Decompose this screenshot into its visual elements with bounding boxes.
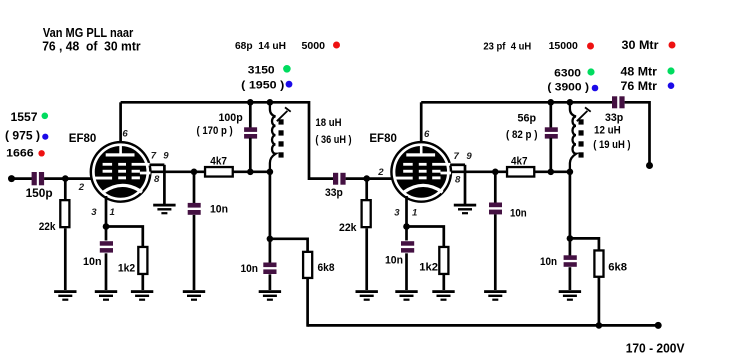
core dashes L2 [579, 119, 584, 157]
wire pin9 V2 down to ground [464, 165, 467, 204]
node tank1 cap bottom [247, 169, 254, 176]
ground (pin 9 V1) [153, 204, 175, 215]
svg-text:9: 9 [466, 151, 472, 162]
svg-text:56p: 56p [518, 113, 537, 125]
svg-text:( 82 p ): ( 82 p ) [506, 129, 538, 141]
wire 10n to ground [494, 214, 497, 290]
B+ terminal [655, 322, 662, 329]
wire cathode V2 down [405, 196, 408, 227]
svg-text:170 - 200V: 170 - 200V [626, 342, 685, 356]
svg-text:33p: 33p [325, 187, 343, 199]
capacitor 10n (cathode2) [401, 241, 414, 252]
svg-text:3: 3 [394, 208, 400, 219]
green dot marker (1557) [42, 113, 49, 120]
node tank2 coil bottom [567, 169, 574, 176]
svg-text:( 36 uH ): ( 36 uH ) [315, 134, 351, 146]
svg-text:150p: 150p [26, 187, 53, 200]
node decouple2 [567, 235, 574, 242]
node tank1 coil bottom [267, 169, 274, 176]
svg-text:76 , 48 of 30 mtr: 76 , 48 of 30 mtr [42, 39, 140, 54]
svg-text:68p 14 uH: 68p 14 uH [235, 41, 286, 52]
node screen1 [191, 169, 198, 176]
svg-text:100p: 100p [219, 112, 243, 124]
svg-text:7: 7 [151, 151, 157, 162]
svg-text:10n: 10n [210, 204, 228, 216]
wire 22k to ground [365, 228, 368, 290]
svg-text:6: 6 [424, 129, 430, 140]
wire cathode1 to 10n [105, 227, 108, 241]
wire node down to 10n [269, 239, 272, 263]
capacitor 10n (screen1 decoupling) [188, 203, 201, 215]
svg-text:Van MG PLL naar: Van MG PLL naar [43, 25, 133, 40]
input terminal [8, 175, 15, 182]
svg-text:12 uH: 12 uH [594, 125, 621, 137]
svg-text:3: 3 [91, 207, 97, 218]
ground (cathode2 10n) [395, 290, 417, 301]
svg-text:1k2: 1k2 [419, 262, 438, 274]
wire cathode V1 down [105, 196, 108, 227]
wire cathode2 to 10n [405, 227, 408, 241]
wire 1k2 to ground [442, 275, 445, 291]
wire pin7 V1 [150, 163, 165, 166]
resistor R1 22k [60, 200, 69, 227]
node rail2 cap top [548, 99, 555, 106]
svg-text:EF80: EF80 [69, 133, 97, 145]
wire 10n cathode1 to ground [105, 253, 108, 290]
wire tank2 bottom down [569, 172, 572, 239]
tube V2 EF80 [390, 141, 452, 203]
wire grid2 down to 22k [365, 179, 368, 200]
svg-text:5000: 5000 [302, 41, 326, 52]
wire 10n cathode2 to ground [405, 253, 408, 290]
resistor R2 4k7 [205, 167, 233, 177]
svg-text:8: 8 [154, 174, 160, 185]
capacitor C1 150p [32, 172, 45, 185]
capacitor 10n (tank1 bottom) [263, 263, 276, 275]
svg-text:4k7: 4k7 [210, 156, 227, 168]
svg-text:22k: 22k [339, 222, 357, 234]
svg-text:7: 7 [454, 151, 460, 162]
wire 4k7 to tank2 bottom [535, 170, 571, 173]
svg-text:EF80: EF80 [369, 133, 397, 145]
svg-text:15000: 15000 [549, 41, 579, 52]
tuning arrow L2 [577, 107, 591, 121]
wire 10n to ground [269, 274, 272, 290]
blue dot marker (1950) [286, 81, 293, 88]
red dot marker (1666) [38, 150, 44, 156]
wire 33p out to output terminal [625, 102, 650, 165]
svg-text:18 uH: 18 uH [315, 117, 341, 129]
wire plate V2 to rail [420, 102, 423, 142]
svg-text:10n: 10n [241, 263, 259, 275]
wire input to C1 [12, 177, 33, 180]
svg-text:6: 6 [122, 129, 128, 140]
svg-text:1666: 1666 [6, 147, 34, 159]
node screen2 [492, 169, 499, 176]
inductor L1 tank coil [270, 102, 276, 172]
svg-text:48 Mtr: 48 Mtr [621, 67, 658, 79]
node decouple1 [267, 236, 274, 243]
svg-text:( 3900 ): ( 3900 ) [547, 82, 589, 94]
resistor R3 1k2 [138, 247, 147, 274]
svg-text:2: 2 [377, 167, 384, 178]
wire 4k7 to tank bottom [233, 170, 271, 173]
wire rail to C 56p [549, 102, 552, 128]
svg-text:4k7: 4k7 [511, 155, 528, 167]
node B+ stage2 [596, 322, 603, 329]
capacitor 10n (cathode1) [100, 241, 113, 252]
wire top rail stage2 [421, 101, 612, 104]
svg-text:33p: 33p [605, 112, 623, 124]
wire pin8 V2 to 4k7 [451, 170, 506, 173]
wire plate V1 to rail [119, 102, 122, 142]
svg-text:6k8: 6k8 [318, 262, 335, 274]
svg-text:2: 2 [78, 182, 85, 193]
blue dot marker (3900) [592, 85, 599, 92]
ground (below R5) [356, 290, 378, 301]
svg-text:30 Mtr: 30 Mtr [622, 40, 660, 52]
svg-text:23 pf 4 uH: 23 pf 4 uH [483, 42, 531, 53]
inductor L2 tank coil [570, 102, 576, 172]
capacitor 100p tank1 [244, 127, 257, 138]
wire tank1 bottom down [269, 172, 272, 239]
svg-text:( 170 p ): ( 170 p ) [197, 125, 233, 137]
wire pin7 V2 [450, 163, 465, 166]
svg-text:3150: 3150 [248, 65, 275, 77]
ground (screen2 10n) [484, 290, 506, 301]
node cathode1 [103, 223, 110, 230]
wire C1 to grid V1 [44, 177, 92, 180]
red dot marker (30 Mtr) [669, 42, 676, 49]
node tank2 cap bottom [548, 169, 555, 176]
svg-text:10n: 10n [83, 256, 102, 268]
wire 10n to ground [193, 215, 196, 290]
svg-text:9: 9 [163, 151, 169, 162]
green dot marker (3150) [283, 65, 291, 73]
wire screen2 down to C 10n [494, 172, 497, 203]
red dot marker (5000) [333, 42, 340, 49]
svg-text:10n: 10n [510, 208, 527, 220]
green dot marker (6300) [587, 68, 594, 75]
svg-text:( 1950 ): ( 1950 ) [241, 79, 284, 91]
blue dot marker (76 Mtr) [668, 82, 675, 89]
node cathode2 [403, 223, 410, 230]
red dot marker (15000) [587, 43, 594, 50]
capacitor 56p tank2 [545, 127, 558, 138]
wire screen1 down to C 10n [193, 172, 196, 204]
ground (tank1 10n) [259, 290, 281, 301]
wire pin8 V1 to 4k7 [151, 170, 205, 173]
node grid1 junction [62, 175, 69, 182]
wire 56p down to tank2 bottom [549, 138, 552, 172]
wire node to 6k8 stage2 [570, 238, 599, 252]
wire 33p to grid V2 [346, 177, 393, 180]
wire cathode1 to R3 1k2 [106, 227, 143, 248]
ground (below R7 1k2) [432, 290, 454, 301]
wire node down to 10n tank2 [569, 238, 572, 255]
wire 10n tank2 to ground [569, 267, 572, 290]
wire 1k2 to ground [141, 275, 144, 291]
green dot marker (48 Mtr) [667, 67, 674, 74]
node grid2 junction [363, 175, 370, 182]
output terminal [646, 162, 653, 169]
capacitor 10n (screen2 decoupling) [489, 203, 502, 215]
wire node to 6k8 [270, 239, 308, 253]
capacitor C 33p coupling [333, 173, 346, 185]
svg-text:6k8: 6k8 [608, 262, 627, 274]
tuning arrow L1 [277, 107, 291, 121]
core dashes L1 [279, 119, 284, 157]
resistor R7 1k2 [439, 247, 448, 274]
B+ supply rail [308, 324, 659, 327]
svg-text:22k: 22k [39, 221, 56, 233]
ground (below R1) [54, 290, 76, 301]
wire 6k8 to B+ rail [598, 276, 601, 327]
node rail1 coil top [267, 99, 274, 106]
title text [42, 25, 140, 54]
ground (screen1 10n) [183, 290, 205, 301]
capacitor C 33p output [612, 96, 625, 108]
wire cathode2 to R7 1k2 [407, 227, 444, 248]
ground (below 1k2) [131, 290, 153, 301]
svg-text:10n: 10n [385, 255, 403, 267]
wire top rail stage1 [121, 102, 334, 178]
node rail2 coil top [567, 99, 574, 106]
svg-text:1557: 1557 [11, 112, 38, 124]
svg-text:1: 1 [412, 208, 417, 219]
svg-text:6300: 6300 [554, 68, 581, 80]
resistor R5 22k [362, 200, 371, 227]
ground (tank2 10n) [559, 290, 581, 301]
capacitor 10n (tank2 bottom) [564, 255, 577, 267]
svg-text:( 975 ): ( 975 ) [5, 131, 40, 143]
svg-text:8: 8 [455, 174, 461, 185]
svg-text:10n: 10n [540, 256, 557, 268]
resistor R8 6k8 [594, 250, 603, 276]
resistor R4 6k8 [303, 252, 312, 278]
wire pin9 down to ground [163, 165, 166, 204]
svg-text:76 Mtr: 76 Mtr [621, 81, 658, 93]
tube V1 EF80 [90, 141, 152, 203]
ground (cathode1 10n) [95, 290, 117, 301]
svg-text:1k2: 1k2 [118, 263, 135, 275]
wire grid1 down to R1 [64, 179, 67, 200]
wire 100p down to tank bottom [249, 138, 252, 172]
node rail1 cap top [247, 99, 254, 106]
ground (pin 9 V2) [454, 204, 476, 215]
svg-text:1: 1 [110, 207, 115, 218]
wire 6k8 to B+ rail [306, 278, 309, 327]
blue dot marker (975) [42, 134, 48, 140]
svg-text:( 19 uH ): ( 19 uH ) [593, 139, 631, 151]
resistor R6 4k7 [507, 167, 534, 177]
wire rail to C 100p [249, 102, 252, 128]
wire R1 to ground [64, 228, 67, 290]
